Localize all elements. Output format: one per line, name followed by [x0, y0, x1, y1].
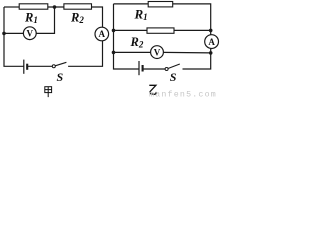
svg-text:S: S — [57, 70, 64, 84]
wire: circuit-2 top-right + right edge upper — [173, 4, 211, 35]
voltmeter V (circuit 1) — [23, 27, 36, 40]
svg-text:manfen5.com: manfen5.com — [149, 89, 217, 99]
wire: voltmeter branch left segment (circuit 2) — [114, 51, 151, 53]
battery (circuit 1): long plate — [23, 60, 25, 74]
wire: R2 branch left segment (circuit 2) — [114, 29, 148, 31]
voltmeter V (circuit 2) — [151, 46, 164, 59]
label jia (circuit 1 caption) — [45, 87, 52, 97]
wire: circuit-1 bottom-left + left edge — [4, 7, 24, 66]
wire: circuit-2 bottom-left + left edge — [114, 4, 140, 69]
node: right-edge junction with R2 branch (circuit 2) — [209, 29, 213, 33]
resistor R2 (circuit 2) — [147, 28, 174, 33]
switch S (circuit 2) — [165, 68, 168, 71]
wire: circuit-2 right edge lower — [183, 48, 211, 69]
battery (circuit 1): short plate — [26, 64, 28, 70]
resistor R2 (circuit 1) — [64, 4, 92, 9]
ammeter A (circuit 1) — [95, 27, 109, 41]
wire: circuit-2 top side — [114, 3, 149, 5]
node: right-edge junction with voltmeter branch (circuit 2) — [209, 51, 213, 55]
wire: circuit-1 top-left segment — [4, 6, 19, 8]
node: left-edge junction with voltmeter branch (circuit 2) — [112, 51, 116, 55]
svg-text:S: S — [170, 70, 177, 84]
resistor R1 (circuit 1) — [19, 4, 48, 9]
svg-text:A: A — [99, 29, 106, 39]
wire: voltmeter branch left (circuit 1) — [4, 32, 23, 34]
switch S (circuit 1) — [52, 65, 55, 68]
wire: voltmeter branch right + riser to junction (circuit 1) — [36, 7, 54, 33]
node: left-edge junction with R2 branch (circuit 2) — [112, 29, 116, 33]
svg-text:V: V — [154, 47, 161, 57]
svg-text:V: V — [27, 28, 34, 38]
wire: circuit-2 bottom between switch and battery — [143, 68, 166, 70]
label yi (circuit 2 caption) — [149, 85, 156, 94]
wire: circuit-1 right lower segment — [68, 41, 102, 67]
wire: voltmeter branch right segment (circuit 2) — [163, 51, 210, 54]
battery (circuit 2): long plate — [138, 61, 140, 75]
wire: circuit-1 top middle segment — [48, 6, 64, 8]
node: junction between R1 and R2 (circuit 1) — [53, 5, 57, 9]
node: left-edge junction (circuit 1) — [2, 32, 6, 36]
svg-text:A: A — [208, 37, 215, 47]
wire: R2 branch right segment (circuit 2) — [174, 29, 211, 31]
ammeter A (circuit 2) — [205, 35, 219, 49]
wire: circuit-1 top-right segment — [92, 7, 103, 27]
resistor R1 (circuit 2) — [148, 2, 173, 7]
wire: circuit-1 bottom segment between switch and battery — [27, 65, 52, 67]
battery (circuit 2): short plate — [142, 65, 144, 72]
